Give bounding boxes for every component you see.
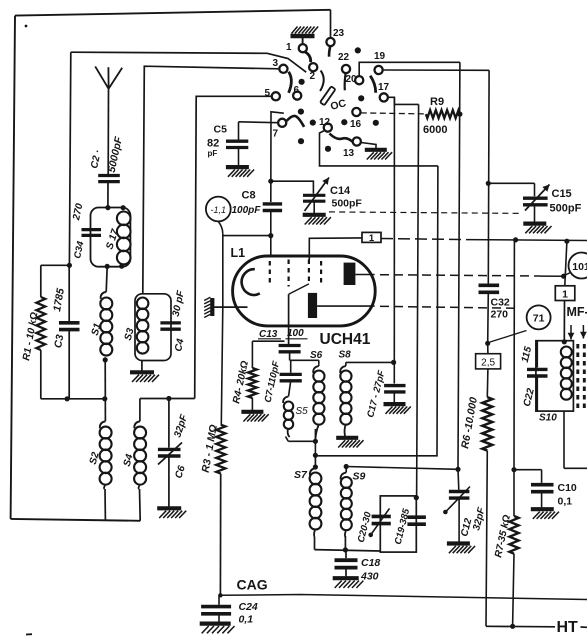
stray mark xyxy=(25,25,28,28)
wire contact5 to tuning rail xyxy=(195,96,272,398)
arrow C14 xyxy=(305,178,330,212)
svg-text:7: 7 xyxy=(273,129,279,140)
wiper 7 xyxy=(287,116,305,127)
svg-text:0,1: 0,1 xyxy=(239,614,254,626)
contact 1 xyxy=(299,44,307,52)
ground under C6 xyxy=(157,506,181,510)
capacitor C4 xyxy=(160,321,180,324)
tank circuit box xyxy=(91,208,131,267)
padder box xyxy=(380,496,416,552)
contact 5 xyxy=(272,92,280,100)
wire R3 top xyxy=(220,424,222,426)
wire AVC top rail y=52 to contact 2 xyxy=(71,52,306,72)
ground 13 xyxy=(365,148,387,152)
tube cathode lead xyxy=(214,306,247,308)
inductor S2 xyxy=(100,421,106,428)
box 1 (screen) xyxy=(362,232,381,242)
capacitor C2 5000pF xyxy=(98,174,120,177)
svg-text:13: 13 xyxy=(343,148,355,159)
contact 12 xyxy=(324,124,332,132)
arrow C20 xyxy=(370,508,389,535)
svg-text:101: 101 xyxy=(572,261,587,273)
wiper 2-rotor xyxy=(320,71,324,92)
contact 22 xyxy=(342,65,350,73)
svg-text:L1: L1 xyxy=(231,246,246,260)
contact 3 xyxy=(279,65,287,73)
node box top xyxy=(105,205,110,210)
tube grid g3 xyxy=(308,260,310,284)
inductor S5 xyxy=(283,397,288,404)
wiper 1-2 xyxy=(305,52,311,63)
arrow C15 xyxy=(525,185,550,211)
svg-text:C14: C14 xyxy=(330,185,351,197)
wire S3 to gnd xyxy=(141,361,143,371)
wire contact16 to R9 xyxy=(361,113,426,114)
switch dot e xyxy=(310,120,316,126)
switch dot a xyxy=(355,47,361,53)
svg-text:6000: 6000 xyxy=(423,124,447,136)
stray mark bottom left xyxy=(26,633,32,635)
ground under S8 xyxy=(336,436,358,440)
capacitor C3 xyxy=(68,265,70,321)
MF core dashed xyxy=(576,344,579,408)
svg-text:71: 71 xyxy=(533,313,545,325)
wire HT dash xyxy=(581,626,587,628)
wire contact20 up-over xyxy=(359,62,460,76)
wire C8 to grid xyxy=(270,210,272,257)
wire 17-line down to C17/S8 xyxy=(393,97,395,383)
tube anode triode xyxy=(308,293,317,318)
svg-text:1: 1 xyxy=(369,233,375,244)
resistor R6 10.000 xyxy=(482,397,492,450)
svg-text:C3: C3 xyxy=(52,334,66,349)
wire tuning rail y=398.5 xyxy=(140,398,195,400)
svg-text:C10: C10 xyxy=(558,482,577,494)
MF arrows xyxy=(570,325,572,340)
svg-text:500pF: 500pF xyxy=(332,198,363,210)
svg-text:1: 1 xyxy=(562,289,568,301)
inductor S4 xyxy=(139,399,141,422)
svg-text:0,1: 0,1 xyxy=(558,496,573,508)
svg-text:1: 1 xyxy=(286,42,292,53)
svg-text:3: 3 xyxy=(273,58,279,69)
ground under C12 xyxy=(447,541,470,545)
wire R1-C3 top rail xyxy=(41,264,70,266)
svg-text:6: 6 xyxy=(294,85,300,96)
wire contact7 to C5 xyxy=(239,121,279,124)
switch dot i xyxy=(325,146,331,152)
svg-text:-1,1: -1,1 xyxy=(211,205,227,215)
capacitor C10 0,1 xyxy=(514,469,542,471)
switch dot c xyxy=(358,95,364,101)
wire to circle 71 xyxy=(490,331,527,343)
gang dashed line C14-C15 xyxy=(329,212,522,214)
svg-text:19: 19 xyxy=(374,51,386,62)
svg-text:S6: S6 xyxy=(310,350,323,361)
svg-text:100: 100 xyxy=(287,328,304,339)
wire antenna-loop top rail xyxy=(15,10,331,16)
capacitor C32 270 xyxy=(479,283,500,287)
wire -1,1 to cathode node xyxy=(218,221,223,234)
svg-text:C32: C32 xyxy=(491,297,510,309)
wire S10 secondary out xyxy=(563,411,565,468)
svg-text:R9: R9 xyxy=(430,96,444,108)
svg-text:UCH41: UCH41 xyxy=(320,331,371,348)
svg-text:HT: HT xyxy=(557,619,579,636)
svg-text:S9: S9 xyxy=(353,471,366,483)
chassis bar left of tube xyxy=(210,298,214,316)
capacitor C14 variable xyxy=(303,194,325,197)
inductor S9 xyxy=(344,464,349,469)
wire 12-line vertical x=437.5 xyxy=(316,166,438,456)
wire antenna-loop bottom rail to S2/S4 xyxy=(11,519,141,521)
node osc tap xyxy=(313,453,318,458)
tube anode heptode xyxy=(344,263,356,285)
svg-text:500pF: 500pF xyxy=(550,203,582,215)
wire S1 to S2 xyxy=(104,360,106,421)
wire contact19 right xyxy=(383,69,489,71)
inductor S10 xyxy=(561,347,572,358)
tube grid g2 xyxy=(288,260,290,287)
wire S2 bottom xyxy=(104,489,106,520)
svg-text:S7: S7 xyxy=(294,469,308,481)
ground under C10 xyxy=(531,507,554,511)
circle -1,1 xyxy=(206,197,231,222)
wire osc bottom rail xyxy=(314,537,316,550)
wire R1-C3 bottom rail xyxy=(41,398,105,400)
svg-text:20: 20 xyxy=(346,74,358,85)
circle 101 xyxy=(569,253,587,279)
wire antenna-loop left side xyxy=(11,16,15,519)
contact 7 xyxy=(278,119,286,127)
resistor R7 35k xyxy=(513,470,515,516)
ground under C5 xyxy=(226,165,249,169)
capacitor C12 variable xyxy=(457,469,460,490)
wire x514 rail xyxy=(513,240,515,470)
svg-text:82: 82 xyxy=(207,138,219,150)
antenna xyxy=(95,66,122,88)
capacitor C20-30 xyxy=(372,515,391,519)
wire S9 top to C12 node xyxy=(346,467,458,470)
switch dot h xyxy=(298,138,304,144)
wire 2,5 to R6 xyxy=(486,369,489,397)
svg-text:2,5: 2,5 xyxy=(481,357,495,368)
svg-text:2: 2 xyxy=(310,71,316,82)
wire tap to S7 xyxy=(314,455,316,468)
resistor R1 10k xyxy=(40,265,42,297)
contact 16 xyxy=(352,108,360,116)
svg-text:C18: C18 xyxy=(361,557,380,569)
svg-text:100pF: 100pF xyxy=(232,205,262,216)
circle 71 xyxy=(527,305,551,329)
node 2.5 junction xyxy=(485,341,490,346)
wire cathode-R3 down xyxy=(221,307,223,425)
wire box1 to grid3 xyxy=(309,238,362,260)
svg-text:S10: S10 xyxy=(539,413,557,424)
anode rail triode to x514 xyxy=(380,306,514,308)
wire C13 bottom to S6 xyxy=(290,359,319,361)
wire S4 bottom xyxy=(139,489,142,521)
wire 20-line vertical x=459.5 xyxy=(458,62,460,469)
wire S8 top to 17-line xyxy=(346,361,394,363)
svg-text:23: 23 xyxy=(333,28,345,39)
wire C15 feed xyxy=(488,182,534,184)
node S5-S6 xyxy=(313,439,318,444)
wire contact17 elbows xyxy=(388,97,419,104)
svg-text:S5: S5 xyxy=(296,406,309,417)
arrow C12 xyxy=(445,487,470,513)
resistor R3 1M xyxy=(216,425,225,474)
contact 17 xyxy=(380,93,388,101)
ground under C17 xyxy=(384,402,406,406)
wire 101 to node xyxy=(564,273,571,277)
svg-text:16: 16 xyxy=(350,119,362,130)
box 1 (MF) xyxy=(555,286,575,301)
wiper 3-6 xyxy=(289,72,292,93)
contact 6 xyxy=(293,92,301,100)
wire CAG rail xyxy=(220,595,587,600)
contact 20 xyxy=(355,76,363,84)
svg-text:22: 22 xyxy=(338,52,350,63)
wire tank to S1 xyxy=(106,266,107,292)
tube triode grid link xyxy=(289,284,309,294)
ground under S3 xyxy=(130,370,154,374)
wire MF rail x=565 xyxy=(565,241,567,286)
ground under R4 xyxy=(241,410,263,414)
inductor S1 xyxy=(101,292,107,299)
wiper 12-13 xyxy=(330,134,354,143)
wire HT rail xyxy=(486,625,555,628)
svg-text:C8: C8 xyxy=(242,190,256,202)
wire contact3 to S3 top xyxy=(143,66,279,294)
resistor R4 20k xyxy=(248,368,257,398)
svg-text:S8: S8 xyxy=(339,350,352,361)
resistor R9 6000 xyxy=(426,110,460,118)
capacitor C24 0,1 xyxy=(218,595,220,605)
ground top (contact 1) xyxy=(291,34,315,38)
contact 23 xyxy=(326,38,334,46)
ground under C15 xyxy=(523,222,546,226)
box 2,5 xyxy=(476,354,501,369)
anode rail heptode to MF xyxy=(380,275,540,276)
capacitor C8 100pF xyxy=(263,202,282,205)
wire C8 top stub xyxy=(271,112,284,202)
capacitor C18 430 xyxy=(345,550,347,558)
inductor S17 xyxy=(117,212,131,226)
tube UCH41 envelope xyxy=(233,256,376,326)
ground under C18 xyxy=(333,576,359,580)
rotor slot OC xyxy=(320,86,335,105)
wire 19-line vertical x=488.5 xyxy=(487,70,490,284)
wire 18-line (17 branch) down to padder xyxy=(417,104,419,497)
svg-text:C15: C15 xyxy=(552,188,572,200)
wire C8node to C14 xyxy=(271,181,314,193)
svg-text:17: 17 xyxy=(378,82,390,93)
wire C13 top to R4 xyxy=(252,340,284,342)
tube grid g1 xyxy=(269,261,271,287)
contact 19 xyxy=(375,66,383,74)
inductor S8 xyxy=(345,362,347,366)
capacitor C22 115 xyxy=(536,341,538,368)
svg-text:C24: C24 xyxy=(239,601,258,613)
capacitor C17 27pF xyxy=(393,383,395,386)
inductor S3 xyxy=(137,298,149,310)
capacitor C15 variable xyxy=(523,196,548,199)
ground under C14 xyxy=(303,213,326,217)
wiper 19-17 xyxy=(370,76,376,93)
capacitor C5 82pF xyxy=(238,122,240,140)
svg-text:MF-: MF- xyxy=(567,305,587,319)
ground under C24 xyxy=(200,621,231,625)
capacitor C7 110pF xyxy=(290,360,292,373)
contact 13 xyxy=(353,137,361,145)
node box bottom xyxy=(105,264,110,269)
svg-text:pF: pF xyxy=(208,149,218,158)
wire 13 to gnd xyxy=(361,143,376,149)
svg-text:270: 270 xyxy=(491,309,509,321)
capacitor C34 xyxy=(82,228,102,231)
inductor S3 box xyxy=(135,294,171,361)
svg-text:CAG: CAG xyxy=(237,577,268,593)
tube cathode arc xyxy=(242,269,260,295)
svg-text:12: 12 xyxy=(319,117,331,128)
MF box S10 xyxy=(536,341,574,411)
inductor S6 xyxy=(318,365,320,366)
capacitor C19-385 xyxy=(407,515,426,519)
switch dot g xyxy=(373,120,379,126)
switch dot b xyxy=(299,79,305,85)
capacitor C13 xyxy=(279,344,301,347)
inductor S7 xyxy=(310,468,316,475)
wire vertical x=70 (to R1/C3 top) xyxy=(69,52,70,265)
svg-text:5: 5 xyxy=(265,88,271,99)
switch dot f xyxy=(341,119,347,125)
svg-text:C5: C5 xyxy=(214,124,228,136)
wire box1 HT rail right xyxy=(381,239,468,240)
capacitor C6 variable xyxy=(168,399,170,448)
switch dot d xyxy=(298,109,304,115)
contact 2 xyxy=(309,63,317,71)
wire contact12 drop xyxy=(320,131,438,166)
tube grid g4 xyxy=(320,261,322,287)
